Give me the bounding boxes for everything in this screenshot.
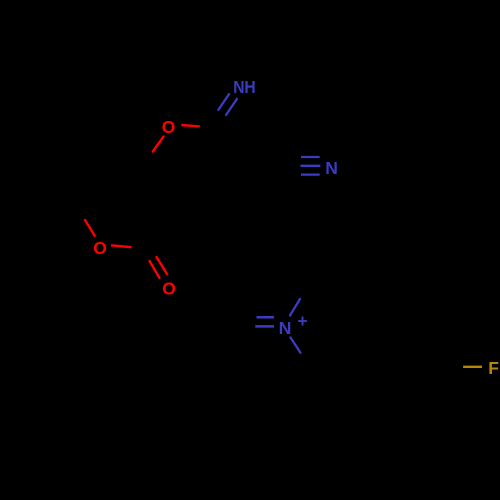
carbonyl C=O double bond line right — [157, 257, 168, 274]
bond C2=NH double bond line 2 — [226, 99, 237, 115]
bond O1-C8a (red half, down-left) — [153, 137, 164, 152]
nitrile triple bond line middle — [301, 165, 321, 167]
svg-text:O: O — [162, 117, 176, 137]
svg-text:NH: NH — [233, 77, 256, 97]
bond C-F (gold half, horizontal) — [463, 366, 482, 368]
nitrile triple bond line bottom — [301, 173, 320, 175]
carbonyl C=O double bond line left — [150, 261, 160, 278]
svg-text:+: + — [297, 311, 307, 331]
bond O1-C2 (red half, horizontal) — [181, 125, 200, 126]
bond N+-CH2 benzyl (blue half, down-right) — [291, 338, 301, 353]
svg-text:O: O — [162, 279, 176, 299]
bond N+-C ring (blue half, up-right) — [290, 299, 300, 316]
pyridinium C=N+ double bond line bottom — [255, 325, 274, 328]
bond C2=NH double bond line 1 — [218, 94, 229, 110]
svg-text:N: N — [325, 158, 338, 178]
pyridinium C=N+ double bond line top — [257, 316, 275, 319]
svg-text:O: O — [93, 238, 107, 258]
bond O2-C(=O) (red half, horizontal right) — [111, 245, 132, 247]
nitrile triple bond line top — [301, 156, 320, 158]
bond O2-CH2 ethyl (red half, up-left) — [85, 220, 95, 236]
svg-text:N: N — [279, 318, 292, 338]
svg-text:F: F — [488, 358, 499, 378]
